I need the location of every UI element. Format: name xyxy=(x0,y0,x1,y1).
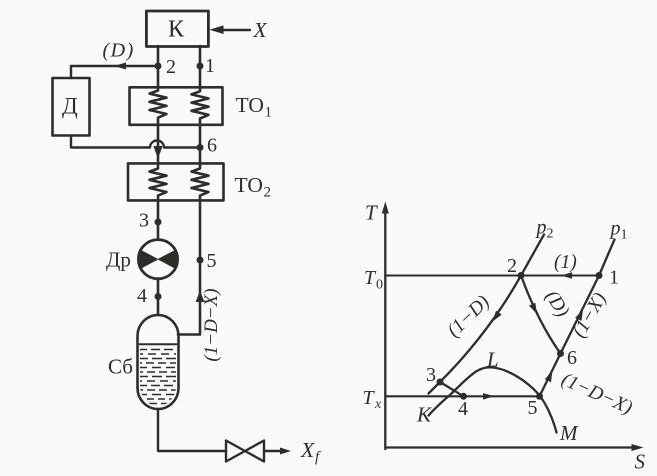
svg-text:T: T xyxy=(365,201,378,225)
svg-text:Д: Д xyxy=(62,94,78,119)
svg-text:2: 2 xyxy=(547,227,554,242)
svg-text:x: x xyxy=(374,397,382,412)
svg-text:0: 0 xyxy=(376,278,383,293)
svg-text:(1): (1) xyxy=(554,252,577,273)
svg-text:X: X xyxy=(253,18,268,42)
svg-text:Сб: Сб xyxy=(108,355,133,379)
svg-text:6: 6 xyxy=(567,347,577,369)
svg-text:4: 4 xyxy=(137,285,147,307)
svg-text:f: f xyxy=(315,450,321,466)
svg-text:1: 1 xyxy=(205,55,215,77)
svg-text:(D): (D) xyxy=(103,40,135,62)
svg-text:5: 5 xyxy=(528,397,538,419)
svg-text:K: K xyxy=(416,403,432,427)
svg-text:(1−D): (1−D) xyxy=(443,292,494,342)
svg-text:2: 2 xyxy=(264,185,272,201)
svg-text:ТО: ТО xyxy=(235,173,263,197)
svg-text:1: 1 xyxy=(609,267,619,289)
svg-text:1: 1 xyxy=(265,105,273,121)
svg-text:4: 4 xyxy=(458,398,468,420)
svg-text:(1−D−X): (1−D−X) xyxy=(558,369,635,419)
svg-text:К: К xyxy=(168,17,185,43)
svg-text:3: 3 xyxy=(139,210,149,232)
svg-text:X: X xyxy=(300,438,315,462)
svg-text:T: T xyxy=(363,387,376,409)
svg-text:2: 2 xyxy=(166,56,176,78)
svg-text:M: M xyxy=(559,421,579,445)
svg-text:Др: Др xyxy=(106,248,131,272)
svg-text:1: 1 xyxy=(621,228,628,243)
svg-text:(1−X): (1−X) xyxy=(569,289,611,341)
svg-text:5: 5 xyxy=(207,250,217,272)
svg-text:6: 6 xyxy=(207,135,217,157)
svg-text:ТО: ТО xyxy=(236,93,264,117)
svg-text:L: L xyxy=(486,348,499,372)
svg-text:2: 2 xyxy=(507,255,517,277)
svg-text:p: p xyxy=(609,218,621,240)
svg-text:p: p xyxy=(535,217,547,239)
svg-text:S: S xyxy=(635,450,646,474)
svg-text:(D): (D) xyxy=(541,287,573,321)
svg-text:(1−D−X): (1−D−X) xyxy=(201,288,222,361)
svg-text:3: 3 xyxy=(426,364,436,386)
